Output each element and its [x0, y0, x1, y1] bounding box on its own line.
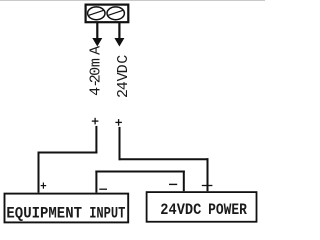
wire to equipment input plus terminal: [38, 152, 40, 193]
terminal screw 2: [107, 7, 124, 20]
svg-text:POWER: POWER: [208, 201, 247, 219]
24VDC power box: [147, 192, 257, 222]
svg-text:EQUIPMENT: EQUIPMENT: [6, 205, 82, 223]
wire to 24VDC power plus terminal: [207, 158, 209, 191]
terminal block J1: [86, 5, 129, 23]
svg-text:4-20mA: 4-20mA: [87, 46, 104, 96]
label 24VDC POWER: [160, 201, 247, 219]
terminal screw 1: [88, 7, 105, 20]
label 24VDC: [115, 55, 132, 98]
svg-text:24VDC: 24VDC: [115, 55, 132, 98]
label - (24VDC power): [169, 183, 177, 185]
label + (24VDC polarity): [115, 119, 122, 126]
label - (equipment input): [99, 188, 107, 190]
wire 4-20mA vertical drop: [95, 126, 97, 154]
top border artifact line: [0, 0, 265, 2]
label + (4-20mA polarity): [92, 118, 99, 125]
label + (24VDC power): [202, 185, 213, 187]
label + (equipment input): [41, 183, 47, 189]
arrow to 4-20mA wire: [92, 23, 102, 47]
svg-text:INPUT: INPUT: [89, 205, 125, 223]
label EQUIPMENT INPUT: [6, 205, 125, 223]
label 4-20m A: [87, 46, 104, 96]
equipment input box: [5, 194, 129, 223]
wire return horizontal run: [95, 171, 184, 173]
wire 24VDC vertical drop: [119, 127, 121, 160]
wire equipment input minus terminal: [95, 171, 97, 193]
arrow to 24VDC wire: [114, 23, 124, 47]
svg-text:24VDC: 24VDC: [160, 201, 201, 219]
wire 24VDC horizontal run: [119, 158, 209, 160]
wire 24VDC power minus terminal: [183, 171, 185, 192]
wire 4-20mA horizontal run: [38, 152, 98, 154]
